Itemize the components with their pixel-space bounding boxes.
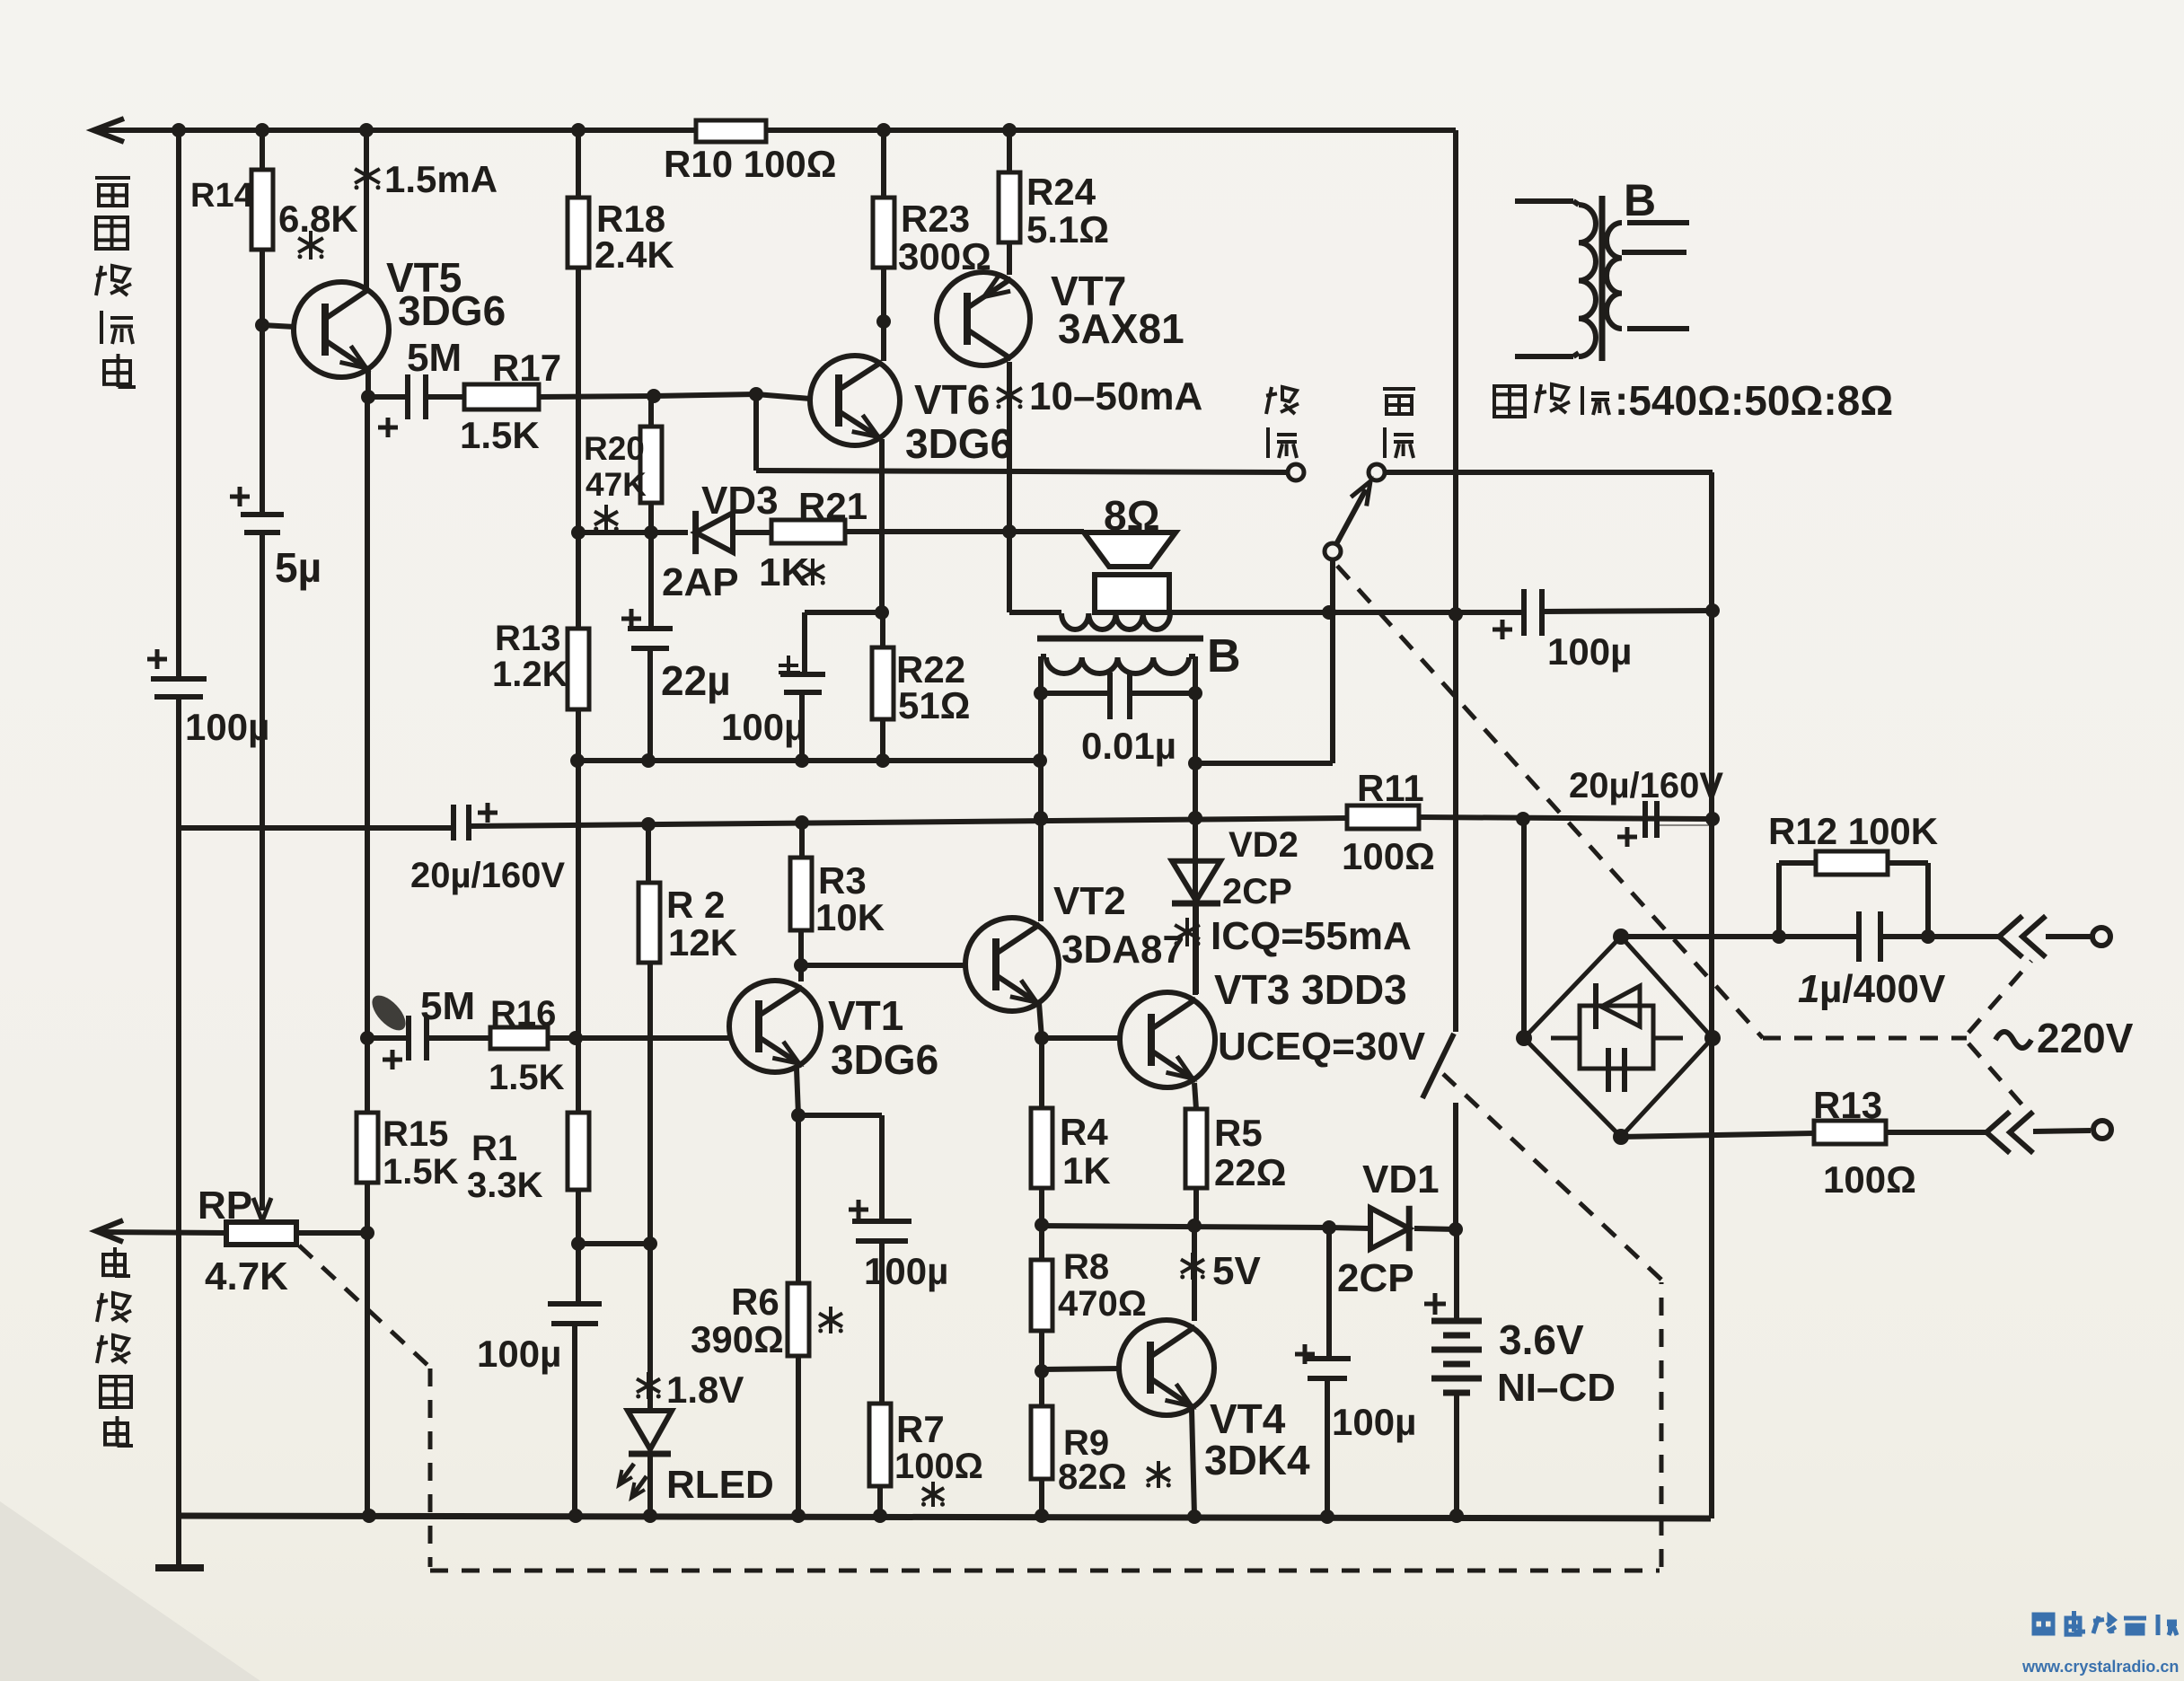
svg-text:51Ω: 51Ω [898,684,970,726]
svg-text:1: 1 [1798,967,1819,1011]
svg-text:R23: R23 [901,198,970,240]
svg-text:1K: 1K [759,550,809,594]
svg-text:390Ω: 390Ω [691,1318,784,1360]
svg-text:100µ: 100µ [477,1333,561,1375]
svg-text:5M: 5M [420,984,475,1028]
svg-text:R11: R11 [1357,767,1424,809]
svg-text:www.crystalradio.cn: www.crystalradio.cn [2021,1658,2179,1676]
svg-text::540Ω:50Ω:8Ω: :540Ω:50Ω:8Ω [1615,377,1893,424]
svg-text:R20: R20 [584,430,645,467]
svg-text:1.8V: 1.8V [666,1369,744,1411]
svg-text:1.5K: 1.5K [460,414,540,456]
svg-text:VT2: VT2 [1053,879,1126,923]
svg-text:µ/400V: µ/400V [1819,967,1946,1011]
svg-text:3DG6: 3DG6 [831,1036,938,1083]
svg-text:R10 100Ω: R10 100Ω [664,143,836,185]
svg-text:20µ/160V: 20µ/160V [410,856,565,895]
svg-text:2AP: 2AP [662,560,739,604]
svg-text:22Ω: 22Ω [1214,1151,1286,1193]
svg-text:R24: R24 [1026,171,1096,213]
svg-text:1.5K: 1.5K [489,1058,565,1097]
svg-text:6.8K: 6.8K [278,198,358,240]
svg-text:1.5mA: 1.5mA [384,158,498,200]
svg-text:B: B [1207,630,1241,682]
svg-text:3.3K: 3.3K [467,1166,543,1205]
svg-text:VD3: VD3 [701,479,779,523]
svg-text:R4: R4 [1060,1111,1108,1153]
svg-text:3DG6: 3DG6 [398,287,506,334]
svg-text:UCEQ=30V: UCEQ=30V [1218,1025,1426,1069]
svg-text:R13: R13 [1813,1084,1882,1126]
svg-text:R16: R16 [490,994,556,1034]
svg-text:VD1: VD1 [1362,1157,1440,1201]
svg-text:R17: R17 [492,347,561,389]
svg-text:47K: 47K [586,466,647,503]
svg-text:5µ: 5µ [275,544,321,591]
svg-text:5V: 5V [1212,1249,1261,1293]
svg-text:100µ: 100µ [1332,1401,1416,1443]
svg-text:12K: 12K [668,921,737,964]
svg-text:2CP: 2CP [1222,872,1292,911]
svg-text:R14: R14 [190,177,253,215]
svg-text:1.2K: 1.2K [492,655,568,694]
svg-text:4.7K: 4.7K [205,1254,288,1298]
svg-text:ICQ=55mA: ICQ=55mA [1211,914,1412,958]
svg-text:100µ: 100µ [864,1250,948,1292]
svg-text:NI–CD: NI–CD [1497,1366,1616,1410]
svg-text:5M: 5M [407,336,462,380]
svg-text:0.01µ: 0.01µ [1081,725,1176,767]
svg-text:R13: R13 [495,619,560,658]
svg-text:20µ/160V: 20µ/160V [1569,766,1723,805]
svg-text:R12 100K: R12 100K [1768,810,1938,852]
svg-text:R7: R7 [896,1408,945,1450]
svg-text:R21: R21 [798,485,867,527]
svg-text:100µ: 100µ [721,706,806,748]
svg-text:RP: RP [198,1184,252,1228]
svg-text:1K: 1K [1062,1149,1111,1192]
svg-text:VD2: VD2 [1228,825,1299,865]
svg-text:3.6V: 3.6V [1499,1316,1584,1363]
svg-text:100Ω: 100Ω [1342,835,1435,877]
svg-text:R8: R8 [1063,1247,1109,1287]
svg-text:22µ: 22µ [661,657,731,704]
svg-text:R15: R15 [383,1114,448,1154]
svg-text:VT1: VT1 [828,992,903,1039]
svg-text:220V: 220V [2037,1015,2134,1061]
svg-text:VT3 3DD3: VT3 3DD3 [1214,966,1407,1013]
svg-text:10–50mA: 10–50mA [1029,374,1202,418]
svg-text:R5: R5 [1214,1112,1263,1154]
svg-text:100µ: 100µ [1547,630,1632,673]
svg-text:10K: 10K [815,896,885,938]
svg-text:3DG6: 3DG6 [905,420,1013,467]
svg-text:5.1Ω: 5.1Ω [1026,208,1109,251]
svg-text:8Ω: 8Ω [1104,492,1159,539]
svg-text:100µ: 100µ [185,706,269,748]
svg-text:3DK4: 3DK4 [1204,1437,1310,1483]
svg-text:2CP: 2CP [1337,1256,1414,1300]
svg-text:VT4: VT4 [1210,1395,1286,1442]
svg-text:100Ω: 100Ω [894,1447,983,1486]
svg-text:100Ω: 100Ω [1823,1158,1916,1201]
svg-text:1.5K: 1.5K [383,1152,459,1192]
svg-text:470Ω: 470Ω [1058,1284,1147,1324]
svg-text:3DA87: 3DA87 [1061,928,1184,972]
svg-text:R6: R6 [731,1281,779,1323]
svg-text:3AX81: 3AX81 [1058,305,1184,352]
svg-text:R 2: R 2 [666,884,725,926]
svg-text:R1: R1 [471,1129,517,1168]
svg-text:R3: R3 [818,859,867,902]
svg-text:2.4K: 2.4K [594,233,674,276]
svg-text:82Ω: 82Ω [1058,1457,1127,1497]
svg-text:RLED: RLED [666,1463,774,1507]
svg-text:300Ω: 300Ω [898,235,991,277]
svg-text:VT6: VT6 [914,376,990,423]
svg-text:B: B [1624,175,1656,225]
